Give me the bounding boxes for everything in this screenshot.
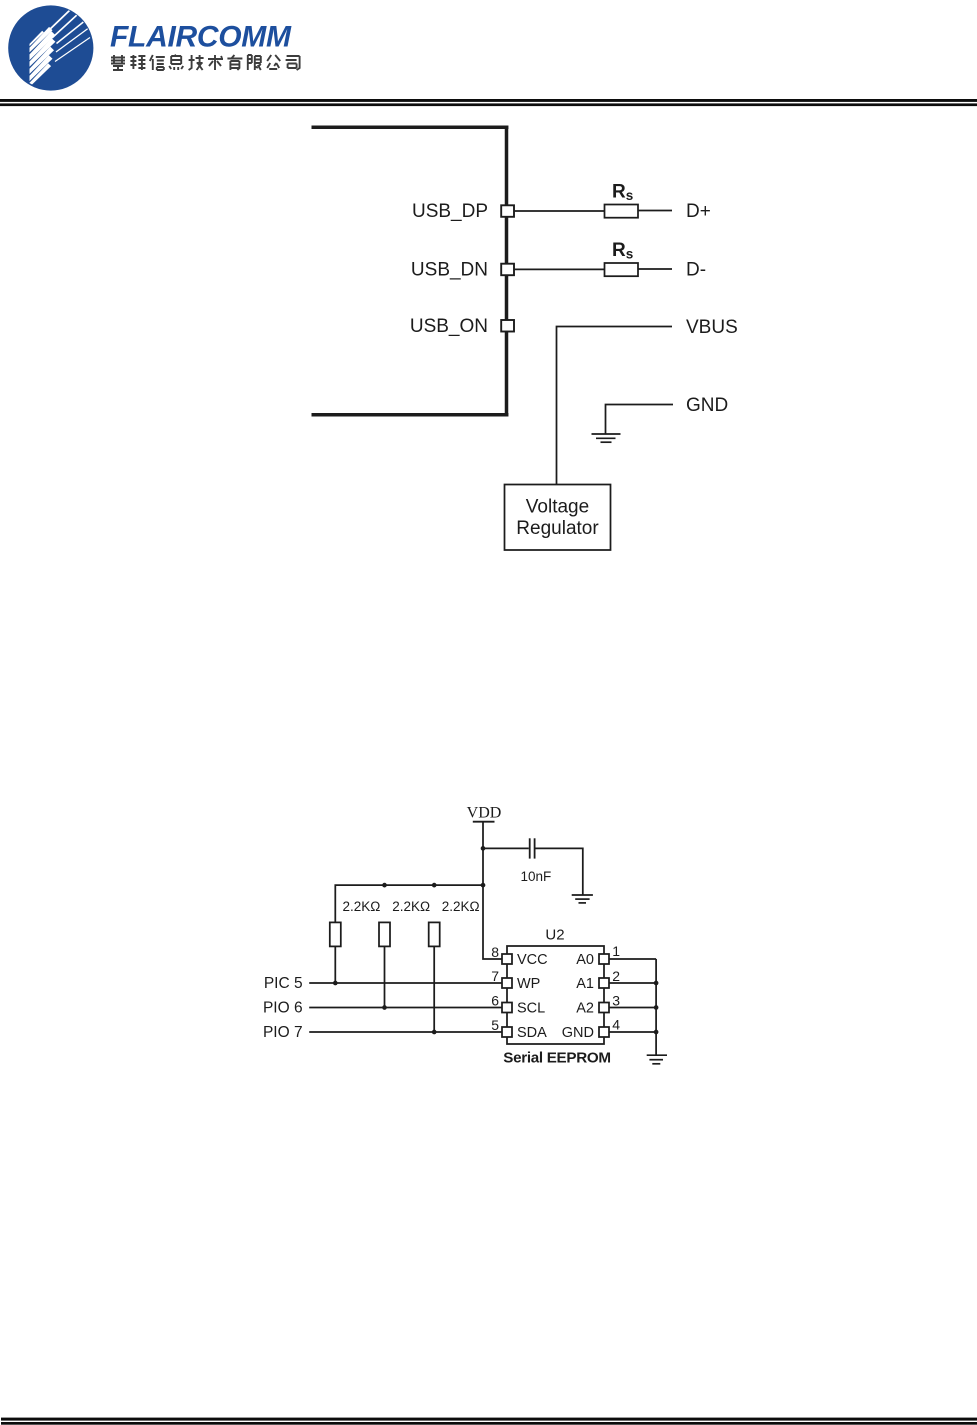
node rail R2: [382, 883, 387, 888]
wire R1 to PIC5: [334, 946, 336, 983]
svg-text:10nF: 10nF: [521, 869, 552, 884]
wire A1 to gnd bus: [609, 982, 656, 984]
pin 1 A0: [599, 954, 609, 964]
pin USB_DP: [501, 205, 514, 217]
svg-text:D+: D+: [686, 201, 711, 222]
svg-text:PIC 5: PIC 5: [264, 975, 303, 992]
wire R2 to PIO6: [384, 946, 386, 1007]
svg-text:FLAIRCOMM: FLAIRCOMM: [110, 21, 292, 54]
chip edge thick frame: [312, 126, 509, 417]
svg-text:USB_DN: USB_DN: [411, 260, 488, 281]
pin 5 SDA: [502, 1027, 512, 1037]
wire VDD to capacitor: [483, 847, 529, 849]
wire A2 to gnd bus: [609, 1007, 656, 1009]
wire VBUS: [557, 327, 673, 485]
svg-text:GND: GND: [562, 1025, 594, 1041]
pin 3 A2: [599, 1003, 609, 1013]
wire Rs1 to D+: [638, 210, 673, 212]
svg-text:PIO 6: PIO 6: [263, 1000, 303, 1017]
svg-text:Serial EEPROM: Serial EEPROM: [503, 1050, 611, 1067]
svg-text:6: 6: [491, 993, 499, 1009]
svg-text:5: 5: [491, 1017, 499, 1033]
svg-text:3: 3: [612, 993, 620, 1009]
ground symbol 1: [592, 434, 621, 442]
svg-text:GND: GND: [686, 395, 728, 416]
svg-text:U2: U2: [545, 927, 564, 944]
svg-text:2.2KΩ: 2.2KΩ: [392, 899, 430, 914]
node GND bus: [654, 1030, 659, 1035]
pin 8 VCC: [502, 954, 512, 964]
svg-text:USB_DP: USB_DP: [412, 201, 488, 222]
svg-text:Rs: Rs: [612, 182, 633, 204]
svg-text:1: 1: [612, 943, 620, 959]
voltage regulator U1: [505, 485, 611, 551]
wire PIO6 to SCL: [309, 1007, 502, 1009]
ground symbol 3: [647, 1055, 667, 1064]
pin 2 A1: [599, 978, 609, 988]
svg-text:PIO 7: PIO 7: [263, 1024, 303, 1041]
node A1 bus: [654, 981, 659, 986]
wire PIC5 to WP: [309, 982, 502, 984]
pin USB_DN: [501, 264, 514, 276]
wire R3 to PIO7: [433, 946, 435, 1032]
junction node at cap branch: [481, 846, 486, 851]
resistor Rs1: [605, 205, 639, 218]
resistor pull-up rail: [335, 885, 483, 922]
resistor R1: [330, 922, 341, 946]
wire capacitor to ground: [536, 848, 583, 894]
wire GND: [606, 405, 674, 434]
resistor Rs2: [605, 263, 639, 276]
wire GND to gnd bus: [609, 1031, 656, 1033]
pin 7 WP: [502, 978, 512, 988]
gnd bus vertical wire: [655, 959, 657, 1055]
wire Rs2 to D-: [638, 268, 673, 270]
resistor R2: [379, 922, 390, 946]
svg-text:Voltage: Voltage: [526, 497, 589, 518]
Chinese company name (stylized strokes): [111, 55, 300, 70]
junction node at resistor rail: [481, 883, 486, 888]
capacitor C1 10nF: [530, 838, 535, 858]
pin 6 SCL: [502, 1003, 512, 1013]
EEPROM chip U2: [507, 946, 604, 1044]
node R2 PIO6: [382, 1005, 387, 1010]
wire VDD down to VCC: [483, 822, 503, 959]
ground symbol 2: [572, 895, 593, 903]
wire PIO7 to SDA: [309, 1031, 502, 1033]
svg-text:Regulator: Regulator: [516, 518, 599, 539]
resistor R3: [429, 922, 440, 946]
VDD rail bar: [473, 821, 495, 823]
svg-text:SCL: SCL: [517, 1001, 545, 1017]
svg-text:WP: WP: [517, 976, 540, 992]
wire A0 to gnd bus: [609, 958, 656, 960]
svg-text:A1: A1: [576, 976, 594, 992]
pin USB_ON: [501, 320, 514, 332]
svg-text:8: 8: [491, 944, 499, 960]
svg-text:USB_ON: USB_ON: [410, 316, 488, 337]
wire USB_DN to Rs2: [514, 268, 605, 270]
node R3 PIO7: [432, 1030, 437, 1035]
svg-text:A0: A0: [576, 952, 594, 968]
header double rule: [0, 99, 977, 106]
svg-text:4: 4: [612, 1017, 620, 1033]
svg-text:Rs: Rs: [612, 240, 633, 262]
svg-text:D-: D-: [686, 260, 706, 281]
wire USB_DP to Rs1: [514, 210, 605, 212]
svg-text:2.2KΩ: 2.2KΩ: [442, 899, 480, 914]
svg-text:2: 2: [612, 968, 620, 984]
svg-text:SDA: SDA: [517, 1025, 547, 1041]
company logo circle: [8, 5, 93, 90]
node A2 bus: [654, 1005, 659, 1010]
svg-text:VBUS: VBUS: [686, 317, 738, 338]
svg-text:2.2KΩ: 2.2KΩ: [343, 899, 381, 914]
pin 4 GND: [599, 1027, 609, 1037]
svg-text:VDD: VDD: [467, 805, 502, 822]
node rail R3: [432, 883, 437, 888]
svg-text:7: 7: [491, 968, 499, 984]
footer double rule: [1, 1418, 977, 1425]
node R1 PIC5: [333, 981, 338, 986]
svg-text:A2: A2: [576, 1001, 594, 1017]
svg-text:VCC: VCC: [517, 952, 548, 968]
